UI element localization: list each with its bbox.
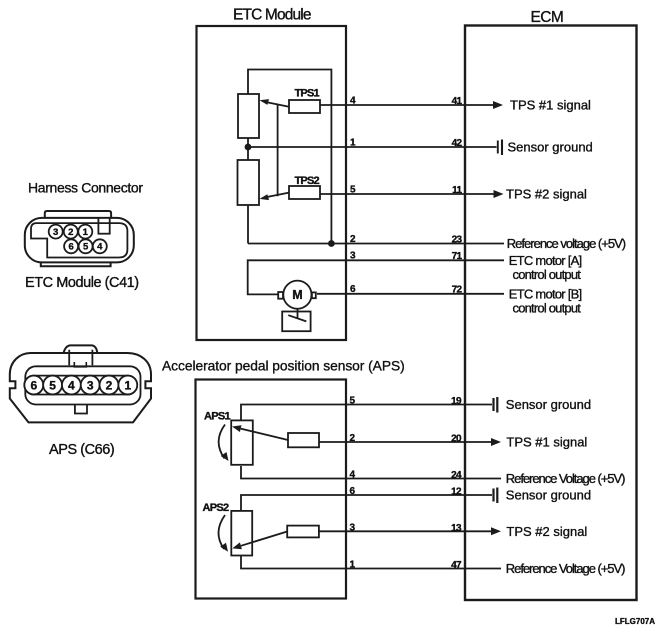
wire 1-42 sensor ground	[248, 146, 465, 148]
arrowhead APS2 arc	[220, 543, 228, 552]
motor left terminal	[278, 292, 283, 299]
svg-text:control output: control output	[513, 301, 582, 316]
pin numbers ETC side	[350, 95, 463, 295]
wire 5-19 sensor ground	[241, 405, 465, 421]
svg-text:6: 6	[350, 284, 356, 295]
stub TPS#2 arrow line (13)	[465, 530, 493, 532]
stub reference 24	[465, 478, 501, 480]
svg-text:12: 12	[451, 487, 462, 498]
APS2 wiper arrow	[241, 532, 287, 546]
svg-text:2: 2	[106, 379, 113, 393]
APS1 wiper contact box	[288, 433, 319, 447]
C66 top tab outer	[63, 345, 97, 353]
TPS1 wiper arrow	[265, 102, 289, 107]
ECM labels bottom	[506, 397, 625, 576]
pin circle 5	[79, 239, 93, 253]
wire 2-20 TPS1 signal	[319, 441, 465, 443]
C41 inner outline	[31, 223, 127, 257]
svg-text:1: 1	[124, 379, 131, 393]
ground bar 1	[497, 141, 499, 154]
svg-text:control output: control output	[513, 267, 582, 282]
svg-text:3: 3	[350, 251, 356, 262]
pin circle 4	[62, 376, 81, 395]
C66 top tab inner walls	[69, 350, 92, 365]
svg-text:TPS #1 signal: TPS #1 signal	[506, 435, 587, 450]
ETC Module box	[197, 26, 347, 340]
svg-text:13: 13	[451, 523, 462, 534]
svg-text:TPS #2 signal: TPS #2 signal	[506, 187, 587, 202]
arrowhead APS1 wiper	[232, 425, 242, 432]
C66 pins	[24, 376, 137, 395]
pin numbers APS side	[350, 396, 463, 572]
APS2 wiper contact box	[287, 526, 319, 538]
svg-text:Reference Voltage (+5V): Reference Voltage (+5V)	[506, 561, 625, 576]
stub sensor ground line	[465, 146, 497, 148]
wire top bus	[248, 70, 331, 244]
throttle valve plate	[288, 315, 306, 321]
stub motor B line	[465, 293, 504, 295]
svg-text:1: 1	[350, 560, 356, 571]
svg-text:Sensor ground: Sensor ground	[506, 488, 591, 503]
svg-text:2: 2	[350, 234, 356, 245]
svg-text:3: 3	[350, 523, 356, 534]
svg-text:Sensor ground: Sensor ground	[508, 140, 593, 155]
pin circle 1	[78, 225, 92, 239]
wire motor A feed	[248, 260, 465, 294]
C41 outer body	[25, 218, 134, 263]
svg-text:4: 4	[68, 379, 75, 393]
arrowhead TPS2 wiper	[260, 194, 270, 200]
wire 5-11 TPS2 signal	[320, 193, 465, 195]
svg-text:5: 5	[350, 396, 356, 407]
svg-text:24: 24	[451, 470, 462, 481]
wire motor shaft	[297, 309, 299, 318]
stub TPS#2 arrow line	[465, 193, 495, 195]
svg-text:LFLG707A: LFLG707A	[615, 617, 655, 626]
stub sensor ground 12	[465, 494, 492, 496]
ground bar 2 (12)	[496, 488, 498, 504]
svg-text:Reference Voltage (+5V): Reference Voltage (+5V)	[506, 471, 625, 486]
TPS2 wiper arrow	[265, 193, 289, 198]
wire 2-23 reference voltage	[248, 243, 465, 245]
wire 3-13 TPS2 signal	[319, 530, 465, 532]
APS1 rotation arc	[219, 425, 225, 459]
C66 inner rounded rect	[25, 366, 140, 404]
stub sensor ground 19	[465, 404, 492, 406]
motor circle	[283, 281, 311, 309]
C66 pin stadium	[24, 376, 137, 395]
svg-text:5: 5	[83, 242, 89, 253]
potentiometer TPS1 resistor	[238, 94, 259, 138]
ground bar 1 (12)	[492, 489, 494, 502]
junction dot reference voltage	[328, 240, 335, 247]
stub reference 47	[465, 568, 501, 570]
stub TPS#1 arrow line (20)	[465, 441, 493, 443]
wire resistor2 bottom to reference bus	[247, 205, 249, 244]
svg-text:TPS #2 signal: TPS #2 signal	[506, 524, 587, 539]
svg-text:TPS #1 signal: TPS #1 signal	[510, 98, 591, 113]
svg-text:20: 20	[451, 434, 462, 445]
potentiometer TPS2 resistor	[238, 160, 260, 205]
ground bar 2 (19)	[496, 397, 498, 413]
svg-text:6: 6	[68, 242, 73, 253]
svg-text:TPS2: TPS2	[295, 175, 320, 187]
svg-text:2: 2	[350, 433, 356, 444]
arrowhead TPS#2 (13)	[491, 527, 501, 535]
svg-text:Accelerator pedal position sen: Accelerator pedal position sensor (APS)	[162, 359, 405, 374]
pin circle 4	[93, 239, 107, 253]
svg-text:41: 41	[452, 96, 463, 107]
APS box	[196, 380, 347, 599]
svg-text:ETC Module (C41): ETC Module (C41)	[25, 275, 139, 291]
APS1 wiper arrow	[241, 429, 288, 440]
pin circle 2	[64, 225, 78, 239]
pin circle 2	[100, 376, 119, 395]
ground bar 1 (19)	[492, 398, 494, 411]
stub motor A line	[465, 259, 504, 261]
svg-text:11: 11	[452, 185, 462, 196]
arrowhead APS1 arc	[221, 452, 229, 461]
motor M circuit	[248, 260, 465, 331]
C66 tab inner u-notch	[74, 362, 86, 367]
svg-text:M: M	[292, 288, 302, 302]
svg-text:Sensor ground: Sensor ground	[506, 397, 591, 412]
motor right terminal	[312, 292, 316, 298]
wire 4-24 reference	[241, 466, 465, 479]
wire 1-47 reference	[241, 556, 465, 569]
ECM box	[465, 26, 637, 601]
svg-text:4: 4	[97, 242, 103, 253]
svg-text:71: 71	[452, 251, 463, 262]
potentiometer APS1 resistor	[231, 420, 253, 464]
svg-text:TPS1: TPS1	[295, 87, 320, 99]
TPS1 wiper contact box	[289, 100, 320, 113]
C41 pins	[49, 225, 107, 254]
APS2 rotation arc	[218, 515, 225, 549]
throttle valve box	[282, 312, 310, 332]
arrowhead TPS#1 (20)	[491, 438, 501, 446]
svg-text:ECM: ECM	[531, 9, 564, 26]
svg-text:23: 23	[452, 234, 463, 245]
svg-text:APS2: APS2	[203, 502, 230, 514]
svg-text:ETC Module: ETC Module	[233, 7, 311, 24]
C66 outer body	[10, 353, 151, 422]
svg-text:APS1: APS1	[204, 411, 231, 423]
stub reference voltage line	[465, 243, 504, 245]
wire 6-72 motor B	[317, 293, 465, 295]
wire 4-41 TPS1 signal	[320, 104, 465, 106]
C66 bottom notch	[75, 405, 87, 414]
svg-text:6: 6	[30, 379, 37, 393]
svg-text:Harness Connector: Harness Connector	[28, 180, 143, 196]
C41 top tab	[45, 211, 111, 219]
arrowhead TPS#2	[494, 190, 504, 198]
potentiometer APS2 resistor	[231, 511, 252, 556]
wiper link TPS1-TPS2	[277, 104, 279, 196]
svg-text:72: 72	[452, 285, 463, 296]
svg-text:6: 6	[350, 486, 356, 497]
TPS2 wiper contact box	[289, 186, 320, 199]
C41 bottom tab	[41, 262, 111, 266]
arrowhead APS2 wiper	[232, 542, 242, 549]
svg-text:2: 2	[68, 227, 73, 238]
junction dot sensor ground	[245, 144, 252, 151]
svg-text:5: 5	[350, 184, 356, 195]
ECM labels top	[506, 98, 626, 316]
svg-text:ETC motor [B]: ETC motor [B]	[509, 286, 582, 301]
svg-text:ETC motor [A]: ETC motor [A]	[509, 253, 582, 268]
arrowhead TPS1 wiper	[260, 99, 270, 105]
stub TPS#1 arrow line	[465, 104, 495, 106]
svg-text:1: 1	[83, 227, 89, 238]
svg-text:Reference voltage (+5V): Reference voltage (+5V)	[507, 236, 626, 251]
svg-text:47: 47	[451, 560, 462, 571]
C41 latch notch	[98, 218, 109, 234]
pin circle 5	[43, 376, 62, 395]
pin circle 6	[24, 376, 43, 395]
wire resistor1 bottom to junction	[247, 138, 249, 160]
svg-text:4: 4	[350, 95, 356, 106]
svg-text:5: 5	[49, 379, 56, 393]
svg-text:3: 3	[87, 379, 94, 393]
svg-text:1: 1	[350, 137, 356, 148]
pin circle 6	[64, 239, 78, 253]
ground bar 2	[501, 140, 503, 156]
wire 6-12 sensor ground	[241, 495, 465, 511]
pin circle 3	[49, 225, 63, 239]
arrowhead TPS#1	[493, 101, 503, 109]
svg-text:APS (C66): APS (C66)	[49, 442, 114, 458]
svg-text:42: 42	[452, 138, 463, 149]
svg-text:19: 19	[451, 396, 462, 407]
pin circle 3	[81, 376, 100, 395]
svg-text:4: 4	[350, 470, 356, 481]
svg-text:3: 3	[53, 227, 58, 238]
pin circle 1	[118, 376, 137, 395]
